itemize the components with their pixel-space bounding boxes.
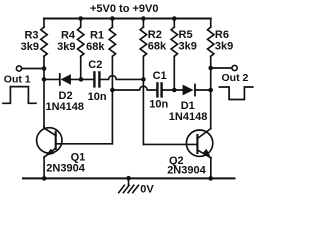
wire: R3 down to Q1 collector (node A)	[43, 56, 45, 128]
wire: R2 lead down to Q2 base corner	[142, 56, 144, 144]
resistor R5	[171, 19, 197, 57]
svg-text:68k: 68k	[86, 41, 105, 53]
wire: Q1 base wire	[56, 143, 112, 145]
wire: C2 to R2 line with hop over R1 lead	[101, 76, 144, 80]
resistor R4	[57, 19, 84, 57]
junction dot: R1 lead / C1 wire (node C)	[110, 88, 115, 93]
svg-text:0V: 0V	[140, 183, 154, 195]
junction dot: R5/C1/D1	[172, 88, 177, 93]
wire: node C to C1 with hop over R2 lead	[112, 86, 156, 90]
resistor R2	[140, 19, 167, 57]
wire: R4 bottom lead	[80, 56, 82, 79]
svg-text:2N3904: 2N3904	[167, 165, 206, 177]
resistor R3	[21, 19, 48, 57]
junction dot: rail/R4	[78, 16, 83, 21]
svg-text:3k9: 3k9	[21, 41, 39, 53]
junction dot: R4/D2/C2	[79, 77, 84, 82]
junction dot: rail/R2	[141, 16, 146, 21]
junction dot: Q1 emitter / 0V rail	[42, 176, 47, 181]
wire: R1 lead down to Q1 base corner	[111, 56, 113, 144]
svg-text:10n: 10n	[149, 99, 168, 111]
junction dot: Out1/collector line	[42, 66, 47, 71]
svg-text:R4: R4	[61, 29, 76, 41]
svg-text:C1: C1	[153, 70, 167, 82]
svg-text:Out 2: Out 2	[222, 72, 249, 84]
wire: node D to Out 2 terminal	[211, 67, 232, 69]
junction dot: C2 wire / R2 lead (node B)	[141, 77, 146, 82]
wire: Q1 emitter down to 0V rail	[43, 157, 45, 178]
transistor Q1 2N3904 (NPN, C/E at left)	[37, 128, 86, 175]
svg-text:Out 1: Out 1	[4, 74, 31, 86]
junction dot: Q2 emitter / 0V rail	[208, 176, 213, 181]
wire: Out 1 to node A	[22, 68, 44, 70]
wire: R5 bottom lead	[173, 56, 175, 90]
junction dot: rail/R1	[110, 16, 115, 21]
wire: Q1 collector up to node A	[43, 126, 45, 128]
svg-text:R1: R1	[90, 30, 104, 42]
Out 1 waveform pulse icon	[3, 87, 36, 104]
svg-text:3k9: 3k9	[179, 41, 197, 53]
svg-text:D2: D2	[59, 90, 73, 102]
svg-text:3k9: 3k9	[215, 41, 233, 53]
svg-text:1N4148: 1N4148	[46, 101, 85, 113]
transistor Q2 2N3904 (NPN, C/E at right)	[167, 129, 213, 177]
junction dot: D1 / node D	[208, 88, 213, 93]
ground symbol	[119, 178, 139, 192]
svg-text:C2: C2	[88, 59, 102, 71]
terminal Out 1	[16, 66, 21, 71]
Out 2 waveform pulse icon	[219, 87, 252, 100]
svg-text:68k: 68k	[148, 41, 167, 53]
junction dot: node A / D2 cathode wire	[42, 77, 47, 82]
svg-text:R6: R6	[215, 29, 229, 41]
svg-text:3k9: 3k9	[57, 41, 75, 53]
wire: D2 anode to R4/C2 junction	[71, 78, 93, 80]
svg-text:10n: 10n	[88, 91, 107, 103]
capacitor C2 10n	[88, 59, 107, 103]
svg-text:1N4148: 1N4148	[169, 111, 208, 123]
diode D2 1N4148 (cathode bar left, pointing left)	[46, 74, 85, 113]
svg-text:R3: R3	[24, 29, 38, 41]
svg-text:R2: R2	[148, 29, 162, 41]
resistor R1	[86, 19, 115, 57]
wire: bottom 0V rail	[23, 177, 235, 179]
junction dot: Out2 / node D	[208, 66, 213, 71]
wire: Q2 base wire	[143, 143, 197, 145]
junction dot: ground stub / 0V rail	[126, 176, 131, 181]
wire: top supply rail	[44, 17, 211, 19]
junction dot: rail/R5	[172, 16, 177, 21]
svg-text:+5V0 to +9V0: +5V0 to +9V0	[90, 3, 159, 15]
wire: D1 cathode to Q2 collector line (node D)	[196, 89, 211, 91]
resistor R6	[208, 19, 234, 57]
capacitor C1 10n	[149, 70, 168, 111]
wire: R6 down to Q2 collector (node D)	[210, 56, 212, 128]
wire: Q2 emitter down to 0V rail	[210, 158, 212, 179]
wire: C1 to R5/D1 junction	[163, 89, 183, 91]
svg-text:R5: R5	[179, 29, 193, 41]
wire: node A to D2	[44, 78, 59, 80]
diode D1 1N4148 (pointing right, cathode bar right)	[169, 85, 208, 124]
svg-text:2N3904: 2N3904	[46, 163, 85, 175]
terminal Out 2	[232, 65, 237, 70]
